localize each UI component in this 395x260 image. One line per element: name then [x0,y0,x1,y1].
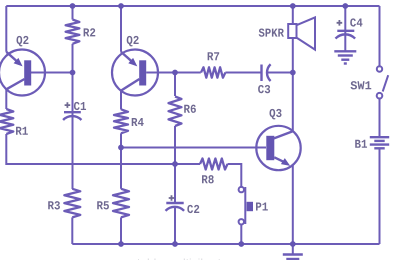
resistor R6 [169,97,182,127]
label Q3 [269,109,281,120]
wire R2 top lead [72,6,74,20]
wire Q3 base line from R4/R5 node [121,147,266,149]
node junction dot 6 at (175,72.5) [172,70,178,76]
wire top rail to C4 [344,6,346,51]
wire R3 bottom to bottom rail corner [71,217,73,244]
transistor Q2 (middle) collector diagonal [121,79,139,91]
resistor R3 [64,189,80,218]
wire speaker to C3 node [292,38,294,73]
node junction dot 13 at (292.8,244) [290,241,296,247]
transistor Q2 (middle) emitter diagonal with arrow [121,52,137,67]
wire Q2a collector lead down to R1 [5,89,7,109]
label R7 [208,52,220,60]
wire R8 to P1 top terminal [228,164,242,187]
resistor R2 [66,20,80,44]
label C4 plus sign [337,20,343,26]
label SW1 [350,81,371,89]
transistor Q3 emitter diagonal with arrow [274,157,290,166]
resistor R7 [201,67,225,77]
battery B1 [370,137,389,148]
transistor Q2 (middle) body [112,50,158,96]
pushbutton P1 [239,187,253,225]
label R6 [184,105,196,113]
resistor R8 [200,159,228,170]
transistor Q2 (left) body [0,50,45,96]
resistor R4 [114,109,128,133]
label R5 [97,201,109,209]
label P1 [256,203,268,211]
wire left rail upper (Q2a emitter to top rail) [5,6,7,52]
node junction dot 1 at (72.5,6) [70,3,76,9]
wire top rail to speaker [292,6,294,24]
transistor Q2 (middle) base bar [139,60,146,85]
label R4 [132,118,144,126]
capacitor C3 plates [262,64,271,81]
label C2 plus sign [169,195,175,201]
resistor R5 [113,189,129,218]
label Q2 (left) [16,36,28,47]
capacitor C1 plates [63,112,81,120]
label R3 [48,201,60,209]
wire C2 top lead from node [174,164,176,203]
switch SW1 [377,66,389,98]
node junction dot 8 at (121,147.5) [118,145,124,151]
node junction dot 12 at (241.3,244) [238,241,244,247]
transistor Q3 collector diagonal [274,131,293,138]
speaker SPKR [288,17,315,49]
wire top power rail [6,5,379,7]
label C2 [187,205,199,213]
wire C3 right plate to speaker column [266,72,293,74]
wire Q2a base to node [31,72,73,74]
transistor Q2 (left) emitter diagonal with arrow [6,52,22,67]
node junction dot 5 at (72.5,72.5) [70,70,76,76]
label C4 [350,18,362,26]
node junction dot 7 at (292.8,72.5) [290,70,296,76]
wire R5 bottom to bottom rail [120,217,122,244]
transistor Q2 (left) base bar [24,60,31,85]
wire SW1 to B1 [379,99,381,136]
wire node to C1 and down through crossing to R3 [72,73,74,190]
wire R1 bottom to corner and along y=164 to R8 [6,134,200,164]
label C1 [74,102,86,110]
node junction dot 11 at (175,244) [172,241,178,247]
label SPKR [259,28,284,36]
wire Q2b collector lead down to R4 [120,91,122,110]
wire C2 bottom to bottom rail [174,207,176,244]
capacitor C2 plates [166,203,185,211]
transistor Q3 base bar [266,136,274,160]
resistor R1 [0,109,13,134]
node junction dot 10 at (121,244) [118,241,124,247]
wire node to R7 [175,72,201,74]
wire Q2b base to node [146,72,175,74]
wire R2 bottom to node [72,44,74,73]
wire P1 bottom lead to rail [240,224,242,244]
wire B1 to bottom rail corner [379,148,381,244]
wire R7 to C3 left plate [225,72,261,74]
node junction dot 9 at (175,164) [172,161,178,167]
wire node down through R6 to y=164 line [174,73,176,97]
wire R6 bottom to node [174,126,176,164]
wire R4 bottom through node to R5 [120,133,122,189]
ground under C4 [334,51,356,63]
label Q2 (middle) [127,36,139,47]
transistor Q2 (left) collector diagonal [6,79,24,89]
svg-text:astable multivibrator: astable multivibrator [124,256,231,260]
label B1 [355,140,367,148]
label C3 [258,85,270,93]
wire Q3 emitter down to bottom rail [292,166,294,245]
transistor Q3 body [256,126,300,170]
ground at bottom [283,255,303,260]
wire bottom ground rail [72,243,379,245]
wire C3 node down to Q3 collector [292,73,294,132]
capacitor C4 plates [336,31,356,39]
node junction dot 3 at (292.8,6) [290,3,296,9]
label C1 plus sign [65,102,71,108]
node junction dot 4 at (345.3,6) [342,3,348,9]
label R1 [16,127,28,135]
wire middle column top (top rail to Q2b) [120,6,122,52]
label R8 [202,175,214,183]
wire right rail upper (top rail to SW1) [379,6,381,66]
node junction dot 2 at (121,6) [118,3,124,9]
label R2 [84,28,96,36]
wire Q3 emitter node to ground [292,244,294,254]
